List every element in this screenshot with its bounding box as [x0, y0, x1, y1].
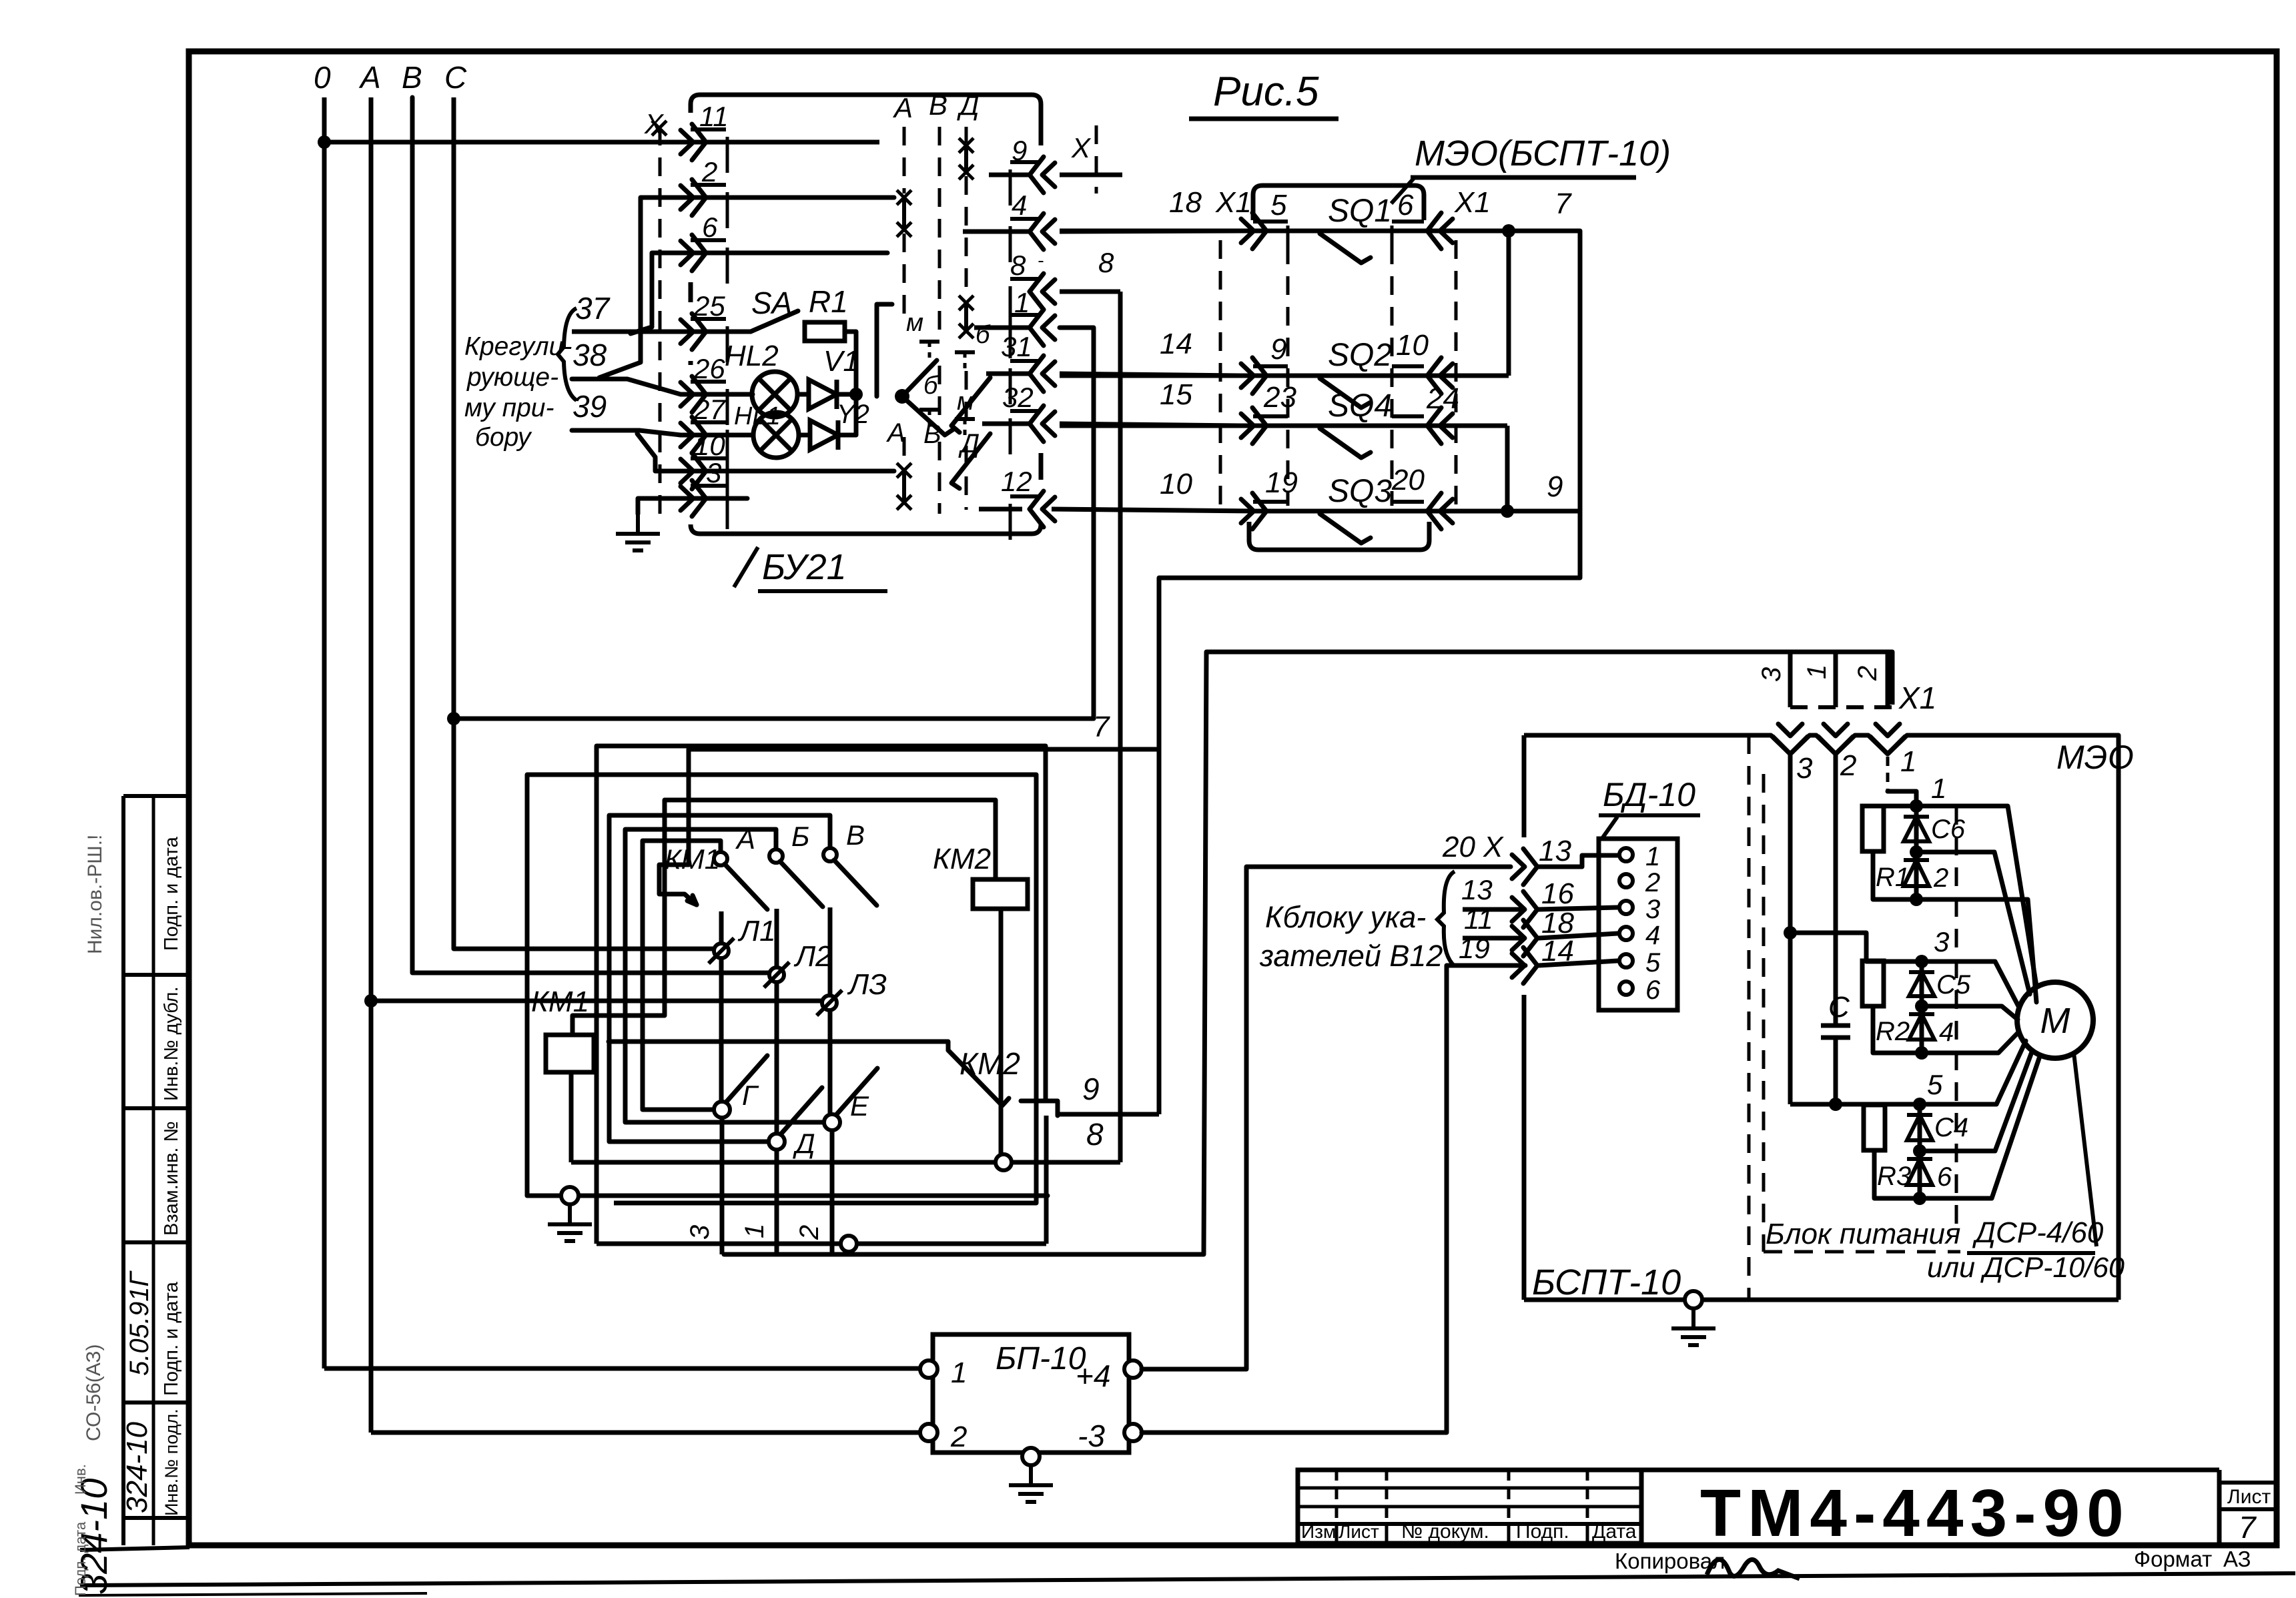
svg-text:1: 1 [1931, 773, 1946, 804]
svg-text:31: 31 [1001, 331, 1032, 362]
svg-text:Формат: Формат [2134, 1547, 2212, 1571]
BD-10 pin 1 [1619, 848, 1633, 861]
connector pin 9 (BU21 right) [1030, 157, 1044, 193]
svg-text:Рис.5: Рис.5 [1213, 69, 1319, 115]
SQ1 switch blade [1320, 234, 1371, 263]
W1 left vertical [595, 746, 599, 1244]
svg-text:3: 3 [1757, 667, 1786, 682]
svg-text:Подп. дата: Подп. дата [72, 1521, 89, 1596]
svg-text:8: 8 [1010, 250, 1026, 281]
contact G [714, 1102, 730, 1118]
svg-text:В: В [846, 819, 865, 851]
KM2 moving contact bracket [1021, 1101, 1058, 1116]
column A down through L1 G [719, 911, 724, 943]
svg-text:4: 4 [1645, 921, 1660, 950]
svg-text:SQ2: SQ2 [1328, 338, 1392, 373]
block BU21 outline [691, 95, 1041, 104]
KM2 fixed wire [609, 1042, 948, 1050]
bus B [412, 97, 769, 973]
svg-text:Кблоку ука-: Кблоку ука- [1265, 900, 1426, 934]
svg-text:Нил.ов.-РШ.!: Нил.ов.-РШ.! [84, 835, 106, 954]
svg-text:R1: R1 [1876, 863, 1910, 892]
wire row 12 / 10 to SQ3 [979, 507, 1022, 512]
KM1 contact V [823, 848, 837, 861]
wire bus0 to BP-10 pin1 [324, 1366, 920, 1371]
BD-10 pin 6 [1619, 981, 1633, 995]
contact b lower [919, 408, 939, 412]
svg-text:10: 10 [1396, 329, 1429, 362]
svg-text:Подп.: Подп. [1516, 1521, 1569, 1543]
svg-text:4: 4 [1012, 189, 1027, 221]
dashed split line [1748, 735, 1751, 1300]
wire 7 rail right of SQ [1159, 231, 1580, 578]
contact b upper right [955, 350, 975, 354]
motor leader line [2074, 1053, 2096, 1246]
bottom edge of BSPT-10 / MEO [1524, 1298, 2119, 1302]
svg-text:-3: -3 [1078, 1419, 1105, 1453]
svg-text:Д: Д [957, 89, 980, 121]
wire C to L1 [454, 947, 713, 951]
feed to cell 3 [1790, 1102, 1910, 1107]
svg-text:3: 3 [1796, 752, 1813, 785]
svg-text:2: 2 [1933, 863, 1948, 893]
svg-text:бору: бору [475, 423, 532, 452]
row 16 [1463, 907, 1525, 912]
svg-text:М: М [2040, 1001, 2070, 1041]
contact D [769, 1134, 785, 1150]
X1 dashed columns [1219, 240, 1222, 511]
node: junction on bus 0 [318, 135, 331, 149]
dashed X column right of BU21 [1095, 125, 1098, 193]
svg-text:0: 0 [314, 60, 331, 95]
svg-text:7: 7 [1555, 187, 1572, 220]
dashed column V [938, 127, 941, 334]
column V down through L3 E [828, 907, 833, 995]
switch SA [751, 311, 798, 332]
svg-text:+4: +4 [1076, 1358, 1110, 1393]
connector pin 12 (BU21 right) [1030, 491, 1044, 527]
fuse contact L3 [822, 995, 837, 1010]
wire row 2 [599, 197, 894, 378]
svg-text:Е: Е [850, 1090, 869, 1122]
svg-text:МЭО(БСПТ-10): МЭО(БСПТ-10) [1415, 133, 1671, 173]
selector blade 3 [951, 378, 990, 432]
BD-10 pin 3 [1619, 901, 1633, 914]
wire 37 to pin 25 [572, 330, 751, 334]
svg-text:7: 7 [1093, 711, 1110, 743]
svg-text:КМ2: КМ2 [933, 843, 991, 875]
SQ3 connector housing bottom [1249, 522, 1429, 550]
svg-text:Блок питания: Блок питания [1766, 1218, 1960, 1250]
wire row 10 [637, 434, 894, 471]
sheet number box [2217, 1470, 2222, 1545]
wire A-contact to G-contact [643, 841, 721, 1110]
left stamp column [121, 796, 125, 1545]
svg-text:5: 5 [1927, 1069, 1943, 1100]
connector pin 26 (BU21 left) [692, 376, 706, 412]
svg-text:9: 9 [1270, 333, 1286, 366]
KM coils common wire [572, 800, 996, 1035]
svg-text:2: 2 [795, 1225, 824, 1240]
bus 0 [322, 97, 327, 1368]
svg-text:БУ21: БУ21 [762, 547, 847, 587]
svg-text:БД-10: БД-10 [1603, 776, 1695, 813]
svg-text:9: 9 [1547, 470, 1563, 503]
diode V1 [797, 392, 809, 397]
wire -3 rail up to row 19 [1142, 965, 1525, 1433]
MEO box right edge [2117, 735, 2121, 1300]
wire 7 vertical down to KM area [1157, 578, 1162, 1114]
W2 lower horizontal [614, 1201, 1036, 1206]
svg-text:С: С [1828, 991, 1850, 1024]
dashed column D [965, 127, 968, 143]
svg-text:9: 9 [1082, 1072, 1100, 1106]
svg-text:25: 25 [693, 290, 725, 322]
svg-text:б: б [923, 372, 939, 400]
svg-text:БСПТ-10: БСПТ-10 [1532, 1262, 1681, 1302]
diode V2 [799, 433, 810, 438]
wire row 32 / 15 to SQ4 [982, 422, 1030, 426]
nested wire W1 top [597, 744, 1046, 749]
svg-text:Лист: Лист [1338, 1521, 1379, 1542]
svg-text:1: 1 [1802, 665, 1832, 679]
power unit dashed box [1762, 774, 1766, 1252]
svg-text:МЭО: МЭО [2056, 739, 2134, 776]
svg-text:SQ4: SQ4 [1328, 388, 1392, 424]
ground of BP-10 [1029, 1465, 1033, 1485]
svg-text:Лист: Лист [2227, 1486, 2271, 1508]
BU21 label [734, 547, 758, 587]
W1 bottom horizontal [597, 1242, 1046, 1246]
svg-text:3: 3 [685, 1225, 715, 1240]
relay coil KM2 [973, 879, 1028, 909]
block BSPT-10 outline [1524, 733, 1771, 738]
svg-text:6: 6 [1937, 1162, 1952, 1192]
svg-text:14: 14 [1160, 328, 1192, 360]
lamp HL2 [752, 372, 797, 417]
svg-text:му при-: му при- [464, 394, 554, 422]
KM1 moving bracket from wire 7 [659, 749, 697, 905]
ground of KM block [561, 1187, 579, 1204]
svg-text:Подп. и дата: Подп. и дата [161, 836, 182, 951]
svg-text:С5: С5 [1936, 970, 1971, 1000]
svg-text:№ докум.: № докум. [1401, 1521, 1489, 1543]
svg-text:13: 13 [1461, 874, 1493, 905]
brace to regulator [558, 308, 577, 400]
svg-text:13: 13 [1539, 835, 1571, 867]
svg-text:Б: Б [791, 821, 809, 852]
svg-text:2: 2 [1853, 666, 1882, 681]
svg-text:Изм: Изм [1301, 1521, 1336, 1542]
svg-text:HL2: HL2 [725, 340, 779, 372]
svg-text:Y2: Y2 [837, 400, 869, 429]
relay coil KM1 [546, 1035, 594, 1072]
bus C [452, 97, 456, 949]
svg-text:6: 6 [1645, 975, 1661, 1005]
wire row 11 [324, 140, 879, 145]
svg-text:ДСР-4/60: ДСР-4/60 [1972, 1216, 2104, 1249]
svg-text:В: В [402, 60, 422, 95]
X1-2 column down to capacitor [1834, 754, 1838, 1026]
svg-text:SQ1: SQ1 [1328, 193, 1392, 229]
svg-text:ЛЗ: ЛЗ [847, 968, 887, 1001]
X1-1 jog to cell 1 [1886, 757, 1890, 791]
svg-text:R1: R1 [809, 284, 848, 319]
svg-text:А: А [886, 418, 905, 448]
svg-text:HL1: HL1 [734, 402, 781, 430]
svg-text:8: 8 [1086, 1117, 1104, 1152]
wire 8 horizontal [571, 1160, 1120, 1165]
svg-text:3: 3 [1934, 926, 1949, 957]
selector blade 2 [902, 396, 953, 435]
wire +4 rail up to 20X [1142, 867, 1511, 1369]
BSPT entry arrow row 13 [1523, 849, 1537, 885]
BD-10 pin 2 [1619, 874, 1633, 887]
KM1 contact B [769, 849, 783, 863]
wire row 9 right stub [989, 173, 1030, 177]
svg-text:11: 11 [1464, 903, 1493, 935]
svg-text:38: 38 [572, 338, 607, 372]
svg-text:15: 15 [1160, 378, 1192, 411]
svg-text:Дата: Дата [1592, 1521, 1637, 1543]
svg-text:R3: R3 [1877, 1162, 1911, 1191]
ground of BSPT-10 [1685, 1291, 1702, 1308]
svg-text:10: 10 [1160, 468, 1192, 500]
wire row 8 to vertical 1679 [1060, 290, 1120, 294]
svg-text:2: 2 [1645, 868, 1660, 897]
svg-text:Подп. и дата: Подп. и дата [161, 1281, 182, 1396]
svg-text:Х1: Х1 [1898, 681, 1936, 715]
svg-text:Инв.№ подл.: Инв.№ подл. [161, 1409, 181, 1516]
svg-text:Л2: Л2 [793, 940, 832, 973]
svg-text:Взам.инв. №: Взам.инв. № [161, 1121, 182, 1236]
wire from KM plug up and right to X1 [724, 652, 1892, 1254]
connector pin 11 (BU21 left) [692, 124, 706, 160]
X1-3 column down [1788, 754, 1793, 1104]
svg-text:1: 1 [1645, 842, 1660, 871]
svg-text:3: 3 [1645, 895, 1660, 924]
svg-text:12: 12 [1001, 466, 1032, 497]
svg-text:2: 2 [1840, 749, 1856, 782]
svg-text:А: А [358, 60, 381, 95]
KM1 coil to wire 8 [569, 1072, 574, 1162]
svg-text:6: 6 [1397, 189, 1414, 222]
svg-text:SA: SA [751, 286, 792, 320]
BD-10 pin 4 [1619, 927, 1633, 940]
connector pin 1 (BU21 right) [1030, 310, 1044, 346]
selector switch common bracket [877, 304, 892, 396]
svg-text:9: 9 [1012, 135, 1027, 166]
connector pin 32 (BU21 right) [1030, 406, 1044, 442]
limit switch SQ4 row [1060, 424, 1507, 428]
svg-text:26: 26 [693, 353, 725, 384]
svg-text:324-10: 324-10 [121, 1421, 153, 1513]
SQ1 connector housing [1253, 185, 1424, 220]
limit switch SQ1 row [1060, 229, 1580, 234]
svg-text:А: А [892, 92, 913, 123]
row 18 [1463, 936, 1525, 941]
svg-text:1: 1 [951, 1356, 967, 1389]
KM1 blades [725, 864, 767, 909]
svg-text:20: 20 [1391, 464, 1425, 496]
bus A [369, 97, 374, 1433]
svg-text:БП-10: БП-10 [996, 1341, 1086, 1376]
svg-text:20 Х: 20 Х [1442, 831, 1504, 863]
wire row 1 to bus C via 1639 [974, 326, 1030, 330]
wire B-contact upper vertical [828, 815, 833, 848]
ground of BU21 [638, 498, 747, 514]
svg-text:16: 16 [1541, 877, 1574, 910]
svg-text:1: 1 [1900, 745, 1916, 778]
fuse contact L1 [714, 943, 729, 958]
X1 down arrows [1773, 737, 1808, 754]
svg-text:Д: Д [793, 1128, 815, 1159]
svg-text:27: 27 [693, 394, 726, 425]
svg-text:1: 1 [1014, 287, 1030, 318]
wire 9 from KM2 [1058, 1112, 1159, 1117]
resistor R1 [805, 322, 845, 341]
diode cell С5 4 [1915, 955, 1928, 968]
contact m lower right [955, 417, 975, 421]
wire 39 to pin 27 [572, 430, 753, 435]
svg-text:19: 19 [1265, 466, 1298, 499]
selector blade 4 [951, 434, 990, 488]
svg-text:23: 23 [1263, 381, 1296, 414]
svg-text:ТМ4-443-90: ТМ4-443-90 [1700, 1476, 2131, 1551]
svg-text:Инв.№ дубл.: Инв.№ дубл. [161, 986, 182, 1101]
svg-text:18: 18 [1169, 186, 1202, 219]
KM1 contact A [714, 852, 727, 865]
wire 8 vertical down [1118, 292, 1123, 1162]
svg-text:37: 37 [575, 291, 611, 326]
svg-text:или ДСР-10/60: или ДСР-10/60 [1927, 1252, 2125, 1284]
wire A to L3 [371, 999, 821, 1004]
svg-text:СО-56(АЗ): СО-56(АЗ) [83, 1344, 105, 1441]
svg-text:Л1: Л1 [737, 915, 776, 947]
connector pin 31 (BU21 right) [1030, 356, 1044, 392]
wire 7 from SQ1 down to SQ2 [1507, 231, 1511, 376]
X1 upper connector box [1788, 652, 1793, 707]
limit switch SQ3 row [1254, 509, 1580, 514]
svg-text:А: А [735, 823, 755, 855]
selector blade 1 [902, 360, 937, 396]
svg-text:19: 19 [1459, 933, 1490, 964]
diode cell С4 6 [1913, 1098, 1926, 1111]
block BP-10 [933, 1334, 1129, 1453]
feed to cell 2 [1790, 933, 1922, 961]
svg-text:В: В [929, 89, 947, 121]
svg-text:2: 2 [701, 156, 717, 187]
svg-text:6: 6 [702, 212, 718, 243]
svg-text:Инв.: Инв. [72, 1464, 89, 1495]
W1 right verticals to KM2 bracket [1044, 746, 1048, 1101]
connector pin 2 (BU21 left) [692, 179, 706, 216]
svg-text:SQ3: SQ3 [1328, 474, 1392, 509]
svg-text:1: 1 [740, 1224, 769, 1238]
capacitor C [1821, 1024, 1850, 1028]
title block [1298, 1470, 1641, 1543]
wire row 6 [631, 253, 887, 334]
wire 7 horizontal into KM1 [689, 747, 1159, 752]
svg-text:зателей В12: зателей В12 [1259, 939, 1443, 973]
svg-text:С4: С4 [1934, 1113, 1968, 1142]
svg-text:R2: R2 [1876, 1017, 1910, 1046]
connector pin 3 (BU21 left) [692, 480, 706, 516]
svg-text:КМ1: КМ1 [531, 985, 589, 1018]
wire Bk-contact to E-contact [625, 829, 824, 1122]
wires into BD-10 [1539, 855, 1617, 867]
column B down through L2 D [775, 909, 779, 967]
svg-text:32: 32 [1002, 382, 1034, 413]
svg-text:5: 5 [1645, 948, 1661, 977]
svg-text:Х1: Х1 [1215, 186, 1252, 219]
BD-10 pin 5 [1619, 954, 1633, 967]
svg-text:рующе-: рующе- [466, 363, 558, 392]
svg-text:V1: V1 [823, 345, 859, 378]
svg-text:АЗ: АЗ [2223, 1547, 2251, 1571]
svg-text:4: 4 [1939, 1018, 1954, 1047]
svg-text:11: 11 [699, 101, 729, 132]
svg-text:м: м [957, 388, 974, 416]
lamp HL1 [753, 412, 799, 458]
svg-text:Крегули-: Крегули- [464, 332, 572, 361]
svg-text:2: 2 [950, 1421, 967, 1453]
wire busA to BP-10 pin2 [371, 1431, 920, 1435]
wire 38 to pin 26 [572, 379, 753, 394]
connector pin 10 (BU21 left) [692, 453, 706, 489]
svg-text:б: б [976, 321, 991, 349]
connector pin 8 (BU21 right) [1030, 274, 1044, 310]
connector pin 25 (BU21 left) [692, 314, 706, 350]
svg-text:С6: С6 [1931, 815, 1966, 844]
connector pin 27 (BU21 left) [692, 417, 706, 453]
KM2 coil to wire 8 [999, 909, 1004, 1162]
svg-text:м: м [906, 309, 923, 337]
svg-text:Х1: Х1 [1454, 186, 1491, 219]
connector pin 6 (BU21 left) [692, 235, 706, 271]
wire row 31 / 14 to SQ2 [986, 372, 1030, 376]
svg-text:КМ2: КМ2 [960, 1046, 1020, 1081]
connector pin 4 (BU21 right) [1030, 214, 1044, 250]
X1 plug notches on top edge [1771, 735, 2119, 754]
wire row 4 / 18 X1 to SQ1 [963, 230, 1030, 234]
svg-text:Х: Х [1071, 132, 1092, 163]
block BD-10 [1599, 839, 1677, 1010]
paper bottom edge lines [80, 1547, 189, 1550]
row 14 [1523, 947, 1537, 983]
svg-text:5: 5 [1270, 189, 1287, 222]
svg-text:7: 7 [2239, 1510, 2257, 1545]
svg-text:КМ1: КМ1 [665, 843, 720, 875]
KM2 blade [948, 1050, 1009, 1106]
contact E [824, 1114, 840, 1130]
dashed column A [903, 127, 906, 193]
svg-text:Г: Г [742, 1080, 759, 1111]
wire W2 (9 net) [527, 775, 1048, 1203]
dashed X column left of BU21 [659, 127, 662, 514]
svg-text:8: 8 [1098, 247, 1114, 278]
wire B-contact to D-contact [609, 815, 830, 1142]
motor M [2017, 982, 2093, 1058]
motor wires fan [1923, 806, 2036, 986]
diode cell С6 2 [1910, 799, 1923, 813]
svg-text:39: 39 [572, 389, 607, 424]
wire SQ4 down to SQ3 [1505, 426, 1510, 511]
brace for V12 [1437, 871, 1455, 966]
svg-text:5.05.91Г: 5.05.91Г [125, 1270, 154, 1376]
contact m upper [919, 340, 939, 344]
svg-text:С: С [444, 60, 467, 95]
